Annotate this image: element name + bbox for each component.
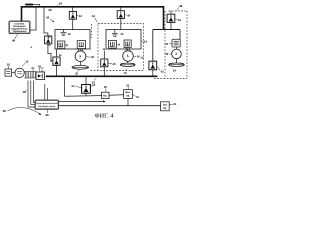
valve V1 [69, 11, 76, 19]
label 20 [38, 64, 42, 71]
svg-text:24: 24 [173, 102, 177, 106]
wire: stem bus to valve V2 [120, 7, 122, 11]
wire: valve V5 down to bottom bus [56, 65, 58, 76]
svg-text:44: 44 [71, 84, 75, 88]
wheel (lens) left module [72, 65, 89, 69]
svg-text:Об.: Об. [126, 95, 130, 98]
wheel (lens) middle module [120, 63, 135, 66]
wire: cartridge output with arrowhead [59, 100, 104, 102]
svg-text:λ: λ [79, 54, 81, 58]
label 28 [23, 90, 27, 94]
svg-text:34: 34 [59, 2, 63, 6]
label 50 (bottom bus) [0, 0, 1, 1]
accumulator symbol middle module [112, 30, 118, 37]
svg-text:30: 30 [120, 33, 123, 36]
svg-text:43: 43 [161, 70, 165, 74]
label 14 (middle module corner) [92, 14, 98, 22]
filter box C [161, 102, 170, 111]
label 30 (motor left) [86, 55, 94, 59]
label 40 (valve V6 right) [108, 62, 116, 66]
svg-text:картридж картр: картридж картр [38, 105, 56, 108]
dashed right edge of left wheel module [91, 24, 93, 38]
svg-text:40: 40 [112, 62, 116, 66]
svg-text:46: 46 [178, 18, 182, 22]
svg-text:36: 36 [47, 35, 51, 39]
wheel (lens) right module [169, 63, 185, 66]
middle module outer box [106, 30, 141, 50]
svg-text:42: 42 [179, 4, 183, 8]
wire: stem into valve V6 [103, 51, 105, 59]
valve V7 [149, 61, 157, 70]
dashed enclosure right wheel module [154, 11, 187, 79]
svg-text:21: 21 [31, 66, 35, 70]
wheel motor circle middle module [123, 51, 134, 62]
wire: valve V3 down to right loop [170, 22, 172, 29]
svg-text:λ: λ [127, 54, 129, 58]
label 16 [7, 63, 11, 69]
label 46 (valve V3 right) [175, 18, 181, 22]
wire tank to engine [12, 71, 15, 73]
wire: right loop right vertical down to accumulator [179, 30, 181, 40]
svg-text:28: 28 [23, 90, 27, 94]
left module outer box [55, 30, 90, 50]
valve V5 [53, 57, 60, 65]
wire: feed from bus down to valve V4 [44, 7, 48, 36]
label 44 (valve V8 left) [71, 84, 81, 88]
junction dot V7/bus [152, 76, 153, 77]
wire: main top supply bus with left drop to control box and right drop trunk [22, 7, 164, 30]
svg-text:46: 46 [12, 39, 16, 43]
wire: valve V4 output down then right toward valve V5 [48, 43, 51, 61]
pump-motor box left module [57, 41, 65, 49]
wire: box B down to long line [127, 98, 129, 105]
junction blob on return line [25, 4, 33, 6]
label 34 (top bus) [57, 2, 63, 7]
labels 17 / 1Г (near valve V5 left) [41, 67, 44, 73]
wires control block to wheel motor left [79, 49, 83, 51]
label 34 (accumulator right) [165, 42, 172, 46]
label 12 [22, 59, 29, 66]
wire: stem into valve V5 from module box [56, 49, 58, 57]
wire: drain line to pump box A [65, 95, 102, 98]
valve V6 [101, 59, 108, 67]
svg-text:56: 56 [3, 109, 7, 113]
label 51 (box B right) [132, 95, 139, 99]
svg-text:Трансмиссионный: Трансмиссионный [36, 102, 58, 105]
wire: stem bus to valve V1 [72, 7, 74, 12]
junction dot riser/bus [64, 76, 65, 77]
wires control block to wheel motor middle [126, 48, 129, 51]
label 21 [31, 66, 35, 71]
svg-text:30: 30 [91, 55, 95, 59]
accumulator symbol left module [61, 30, 67, 36]
wire: short parallel return line top-left [25, 4, 40, 6]
label 56 with long leader [3, 108, 42, 115]
label 44 (valve V2 right) [125, 14, 131, 18]
neck accumulator to motor right [176, 47, 178, 49]
label 30 (motor middle) [134, 55, 141, 59]
label 26 [45, 110, 49, 118]
wire: stem to valve V3 [170, 11, 172, 14]
label 42 (right module corner) [177, 4, 183, 11]
svg-text:50: 50 [104, 85, 108, 89]
label 24 (box C) [169, 102, 177, 106]
wire motor to wheel left [80, 62, 82, 66]
wire: right module loop top [153, 29, 180, 31]
transmission comb 21 [24, 72, 36, 79]
svg-text:34: 34 [165, 42, 169, 46]
arrowhead on cartridge output [103, 100, 105, 102]
label 46 [12, 34, 18, 43]
svg-text:ФИГ. 4: ФИГ. 4 [95, 113, 114, 120]
svg-text:30: 30 [165, 52, 169, 56]
label 34 (middle module right) [141, 40, 147, 44]
wheel motor circle left module [75, 51, 86, 62]
svg-text:Об.: Об. [163, 107, 167, 110]
junction dot V8/bus [85, 76, 86, 77]
svg-text:Нас: Нас [103, 95, 108, 98]
svg-text:36: 36 [46, 16, 50, 20]
pump-motor box middle module [109, 40, 117, 48]
valve V3 [167, 14, 175, 22]
junction dot V5/bus [56, 76, 57, 77]
svg-text:10: 10 [124, 71, 128, 75]
svg-text:51: 51 [136, 95, 140, 99]
control box (hydraulic distribution control system) [9, 21, 30, 34]
wheel motor circle right module [172, 49, 182, 59]
wire: bottom return bus from pump [46, 75, 158, 77]
svg-text:14: 14 [92, 14, 96, 18]
wire: valve V7 down to bottom bus [152, 70, 154, 77]
label 32 (wheel left) [75, 70, 79, 76]
valve V4 [45, 36, 52, 44]
svg-text:50: 50 [92, 80, 96, 84]
wire: return line drop to bus [39, 5, 41, 7]
wire: valve V1 to left module box [72, 19, 74, 30]
label 50 (box A) [104, 85, 108, 92]
dashed enclosure middle wheel module [98, 24, 144, 71]
junction dot V6/bus [103, 75, 105, 77]
wire: valve V6 down to bottom bus [103, 67, 105, 76]
svg-text:34: 34 [173, 68, 177, 72]
svg-text:Управления: Управления [13, 30, 27, 33]
svg-text:32: 32 [75, 71, 79, 75]
svg-text:λ: λ [175, 52, 177, 56]
drain elbows from transmission into cartridge [28, 81, 47, 108]
arrow into valve V5 [51, 60, 53, 62]
engine circle 12 [15, 68, 24, 77]
wire motor to wheel middle [127, 61, 129, 63]
svg-text:26: 26 [47, 43, 51, 47]
svg-text:42: 42 [79, 14, 83, 18]
wire: stem bus to valve V8 [85, 76, 87, 84]
label 36 with arrow [46, 16, 55, 23]
label 43 (valve V7 right) [157, 67, 164, 74]
control block left module [77, 41, 85, 49]
transmission cartridge box [35, 100, 59, 109]
svg-text:40: 40 [48, 8, 52, 12]
valve V8 [82, 85, 91, 94]
dashed stub left of middle module bottom [91, 70, 99, 72]
control block middle module [124, 40, 131, 48]
fuel tank box 16 [5, 69, 12, 76]
wire: right loop left vertical down to valve V7 [152, 30, 154, 62]
wire: box A to box B [109, 94, 124, 97]
label 42 (valve V1 right) [76, 14, 82, 18]
label 10 (wheel middle) [124, 69, 128, 76]
wire: riser from bus down to drain line [64, 76, 66, 96]
wire: valve V8 down to drain line [85, 93, 87, 96]
label 30 (motor right) [165, 52, 171, 56]
heat exchanger box B [124, 90, 133, 99]
svg-text:12: 12 [25, 59, 29, 63]
wire: long line cartridge to box C [59, 105, 161, 107]
main pump box 20 [36, 72, 45, 80]
svg-text:44: 44 [127, 14, 131, 18]
svg-text:26: 26 [45, 113, 49, 117]
svg-text:34: 34 [144, 40, 148, 44]
wire: auxiliary line from bus down to control box right side [31, 7, 36, 30]
svg-text:30: 30 [68, 33, 71, 36]
wire: valve V2 to middle module box [120, 18, 122, 29]
valve V2 [117, 11, 124, 19]
accumulator box right module [172, 39, 180, 47]
label 52 (box B) [126, 83, 130, 89]
scavenge pump box A [102, 92, 109, 98]
wire motor to wheel right [176, 59, 178, 63]
label 52 (valve V8 right) [91, 83, 96, 87]
label 50 (bottom bus arrow) [92, 78, 96, 84]
